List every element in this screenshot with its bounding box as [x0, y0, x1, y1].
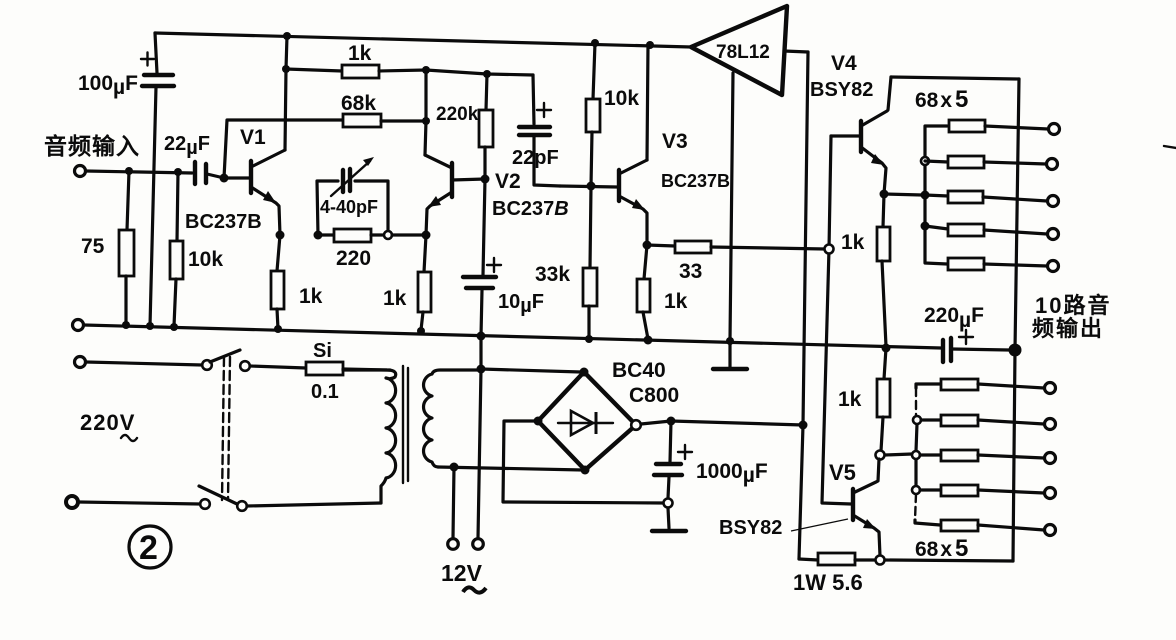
svg-text:4-40pF: 4-40pF	[320, 197, 378, 217]
node: bridge right corner (open)	[631, 420, 641, 430]
node: rail / 10k	[170, 323, 178, 331]
transformer T1 core	[403, 366, 408, 483]
resistor R 220k	[436, 74, 493, 179]
node: bus / V4 emitter wire	[921, 191, 930, 200]
resistor R 1k (V3 emitter)	[637, 245, 688, 339]
wire: 12V left lead	[453, 467, 454, 538]
terminal: 12V right	[473, 539, 484, 550]
label: 12V	[441, 560, 486, 593]
svg-text:V5: V5	[829, 460, 856, 485]
svg-text:10µF: 10µF	[498, 291, 544, 317]
node: input / 10k branch	[174, 168, 182, 176]
wire: bridge positive output	[641, 421, 803, 425]
svg-text:0.1: 0.1	[311, 381, 339, 403]
node: secondary bottom / 12V left	[450, 463, 459, 472]
ground (top circuit)	[713, 341, 747, 369]
capacitor C 22uF	[164, 133, 224, 184]
svg-text:220µF: 220µF	[924, 304, 984, 332]
node: 220 right (open)	[384, 231, 392, 239]
node: rail / 75	[122, 321, 130, 329]
node: V2 emitter	[422, 231, 431, 240]
node: input / 75 ohm branch	[125, 167, 133, 175]
wire: scan artifact right edge	[1164, 146, 1176, 148]
switch S1b (mains, lower pole)	[199, 486, 247, 511]
svg-text:BC237B: BC237B	[661, 171, 730, 191]
svg-text:1W 5.6: 1W 5.6	[793, 570, 863, 595]
node: bus2 / R4 (open)	[912, 486, 920, 494]
capacitor C 4-40pF trimmer loop	[317, 157, 388, 235]
wire: bridge negative return	[503, 421, 663, 503]
capacitor C 10uF	[463, 179, 544, 336]
terminal: output 4	[1048, 229, 1059, 240]
node: bus2 / R2 (open)	[913, 416, 921, 424]
node: secondary top / 12V right riser	[477, 365, 486, 374]
resistor R 33k	[535, 186, 597, 339]
svg-text:1k: 1k	[838, 388, 862, 411]
resistor R 68k (feedback)	[224, 92, 426, 178]
node: bridge top corner	[580, 368, 589, 377]
node: 220k top	[483, 70, 491, 78]
label: 10路音频输出	[1032, 293, 1111, 341]
wire: bottom bank bus	[915, 384, 940, 525]
svg-text:220k: 220k	[436, 104, 479, 125]
terminal: audio input	[75, 166, 86, 177]
svg-text:音频输入: 音频输入	[44, 133, 140, 159]
svg-text:1k: 1k	[299, 285, 323, 308]
ground (rectifier)	[652, 508, 686, 531]
wire: lower switch to transformer	[247, 503, 381, 506]
node: rail / 1k V1	[274, 325, 282, 333]
node: bus / R4	[921, 222, 930, 231]
svg-text:10路音: 10路音	[1035, 293, 1111, 318]
svg-text:100µF: 100µF	[78, 72, 138, 99]
wire: 220V top lead	[86, 362, 202, 365]
node: rail / 10uF / 12V riser	[477, 332, 486, 341]
svg-text:220: 220	[336, 247, 371, 270]
node: V1 base	[220, 174, 229, 183]
label: 220V	[80, 410, 137, 441]
svg-text:频输出: 频输出	[1032, 316, 1104, 341]
wire: top supply rail	[155, 33, 691, 73]
resistor R 68 (bank2 #1)	[941, 379, 1044, 390]
resistor R 68 (bank1 #2)	[925, 156, 1046, 168]
resistor R 5.6 1W (V5 emitter)	[793, 553, 875, 595]
node: V1 emitter / trimmer branch	[314, 231, 323, 240]
svg-text:V2: V2	[495, 170, 521, 193]
svg-text:10k: 10k	[604, 87, 639, 110]
node: rail / ground symbol	[726, 337, 734, 345]
node: rail / 1k V3	[644, 336, 653, 345]
resistor R 68 (bank2 #2)	[921, 415, 1044, 426]
wire: 78L12 ground leg	[730, 73, 733, 340]
svg-text:220V: 220V	[80, 410, 135, 435]
svg-text:BSY82: BSY82	[810, 79, 873, 101]
node: top rail / V3 collector branch	[646, 41, 654, 49]
resistor R 75	[81, 171, 134, 325]
node: 220uF / right rail (big)	[1009, 344, 1022, 357]
transistor Q V5 BSY82	[719, 459, 880, 556]
node: +12V / regulator line	[799, 421, 808, 430]
wire: 220 node to V2 emitter	[392, 233, 426, 236]
node: rail / V4-V5 1k junction	[882, 344, 891, 353]
transistor Q V2 BC237B	[425, 155, 569, 235]
resistor R 68 (bank2 #4)	[920, 485, 1044, 496]
terminal: 220V line	[75, 357, 86, 368]
node: 1000uF negative / return (open)	[664, 499, 673, 508]
svg-text:22µF: 22µF	[164, 133, 210, 159]
node: rail / 100uF	[146, 322, 154, 330]
regulator U 78L12	[691, 6, 808, 95]
svg-text:22pF: 22pF	[512, 147, 559, 169]
resistor R 68 (bank1 #1)	[949, 120, 1048, 132]
wire: V2 collector riser	[425, 70, 426, 155]
terminal: output 2	[1047, 159, 1058, 170]
node: +12V / 1000uF	[667, 417, 676, 426]
switch S1a (mains, upper pole)	[202, 350, 250, 371]
svg-text:1000µF: 1000µF	[696, 460, 768, 487]
node: V4 emitter	[880, 190, 889, 199]
svg-text:Si: Si	[313, 340, 332, 362]
wire: V3 collector to top rail	[647, 45, 648, 160]
capacitor C 100uF	[78, 53, 174, 100]
svg-text:12V: 12V	[441, 560, 483, 586]
svg-text:78L12: 78L12	[716, 42, 770, 63]
wire: secondary top to bridge	[478, 369, 581, 372]
wire: right rail	[1013, 79, 1019, 561]
svg-text:BC237B: BC237B	[492, 198, 569, 220]
fuse Si 0.1	[306, 340, 390, 403]
svg-text:68x5: 68x5	[915, 535, 968, 562]
wire: emitter node to right rail bottom	[885, 560, 1013, 561]
wire: input line	[86, 171, 192, 173]
transformer T1 primary	[343, 369, 396, 503]
svg-text:68k: 68k	[341, 92, 376, 115]
node: rail / 33k	[585, 335, 593, 343]
resistor R 33	[647, 241, 825, 283]
resistor R 68 (bank1 #3)	[925, 191, 1047, 203]
resistor R 68 (bank1 #5)	[948, 258, 1047, 270]
svg-text:33: 33	[679, 260, 702, 283]
wire: V4 collector to right rail top	[891, 77, 1019, 79]
svg-text:V4: V4	[831, 52, 857, 75]
node: V1 emitter	[276, 231, 285, 240]
wire: ground rail	[84, 325, 941, 348]
wire: 12V right riser	[478, 336, 481, 538]
capacitor C 22pF	[512, 75, 560, 186]
node: 1k / V2 collector net	[422, 66, 430, 74]
wire: switch to fuse	[250, 366, 306, 368]
resistor R 10k (V3 base)	[586, 43, 639, 186]
svg-text:1k: 1k	[841, 231, 865, 254]
wire: 100uF bottom to ground rail	[150, 87, 156, 326]
node: rail / 1k V2	[417, 327, 425, 335]
node: V5 collector (open)	[876, 451, 885, 460]
wire: V1 collector to top rail	[285, 36, 287, 150]
node: bus open circle	[921, 157, 929, 165]
wire: 220V bottom lead	[79, 502, 200, 504]
svg-text:BC237B: BC237B	[185, 211, 262, 233]
wire: V5 collector node to bottom bus	[885, 454, 912, 455]
wire: 78L12 output to +12V node	[799, 52, 808, 559]
terminal: ground rail left	[73, 320, 84, 331]
node: bridge left corner	[534, 417, 543, 426]
svg-text:75: 75	[81, 235, 105, 258]
wire: top bank bus	[925, 126, 947, 264]
node: 68k / V2 collector net	[422, 117, 430, 125]
capacitor C 220uF	[924, 304, 1009, 362]
transistor Q V1 BC237B	[185, 126, 285, 235]
resistor R 1k (V5 collector)	[838, 348, 890, 451]
resistor R 68 (bank1 #4)	[925, 224, 1047, 236]
terminal: output 3	[1048, 196, 1059, 207]
node: bridge bottom corner	[581, 466, 590, 475]
resistor R 68 (bank2 #3)	[920, 450, 1044, 461]
resistor R 68 (bank2 #5)	[941, 520, 1044, 531]
terminal: output 5	[1048, 261, 1059, 272]
terminal: output 6	[1045, 383, 1056, 394]
node: V1 collector / 1k feedback	[282, 65, 290, 73]
bridge rectifier BC40 C800	[538, 359, 679, 470]
wire: V4 emitter to bus	[884, 194, 922, 195]
svg-text:V3: V3	[662, 130, 688, 153]
svg-text:BSY82: BSY82	[719, 517, 782, 539]
wire: secondary bottom to bridge	[438, 467, 583, 470]
resistor R 1k (V1 collector feedback)	[286, 42, 426, 78]
resistor R 1k (V1 emitter)	[271, 235, 323, 329]
resistor R 220	[318, 229, 384, 270]
capacitor C 1000uF	[654, 421, 768, 498]
node: V3 base / 10k / 33k	[587, 182, 596, 191]
svg-text:1k: 1k	[664, 290, 688, 313]
node: bus2 / V5 collector (open)	[912, 451, 920, 459]
svg-text:68x5: 68x5	[915, 86, 968, 113]
node: V4/V5 base / 33 wire (open)	[825, 245, 834, 254]
node: top rail / 10k branch	[591, 39, 599, 47]
svg-text:33k: 33k	[535, 263, 570, 286]
svg-text:10k: 10k	[188, 248, 223, 271]
svg-text:1k: 1k	[348, 42, 372, 65]
label: figure number 2	[129, 526, 171, 568]
node: V5 emitter / 5.6 (open)	[876, 556, 885, 565]
resistor R 1k (V4 emitter)	[877, 194, 890, 346]
transistor Q V4 BSY82	[810, 52, 891, 194]
node: V3 emitter	[643, 241, 652, 250]
node: V2 base / 220k / 10uF	[481, 175, 490, 184]
switch linkage (dashed)	[222, 357, 230, 500]
terminal: 220V neutral	[66, 496, 78, 508]
node: top rail / V1 collector branch	[283, 32, 291, 40]
svg-text:C800: C800	[629, 384, 679, 407]
svg-text:1k: 1k	[383, 287, 407, 310]
terminal: output 1	[1049, 124, 1060, 135]
svg-text:2: 2	[139, 529, 158, 567]
svg-text:BC40: BC40	[612, 359, 666, 382]
wire: 1k node to 22pF corner	[426, 70, 533, 75]
terminal: output 9	[1045, 488, 1056, 499]
terminal: output 7	[1045, 419, 1056, 430]
terminal: output 10	[1045, 525, 1056, 536]
svg-text:V1: V1	[240, 126, 266, 149]
transformer T1 secondary	[424, 370, 478, 467]
resistor R 1k (V2 emitter)	[383, 235, 431, 330]
terminal: output 8	[1045, 453, 1056, 464]
wire: V4 base line down to V5 base	[822, 136, 851, 504]
transistor Q V3 BC237B	[560, 130, 730, 245]
resistor R 10k (input bias)	[170, 172, 223, 326]
terminal: 12V left	[448, 539, 459, 550]
